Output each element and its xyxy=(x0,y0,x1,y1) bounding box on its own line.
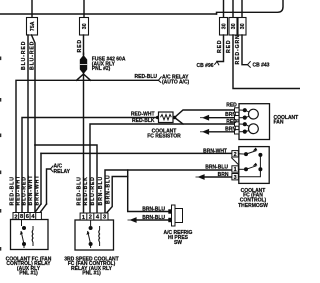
svg-text:PNL #2): PNL #2) xyxy=(92,66,111,72)
svg-text:FAN: FAN xyxy=(274,120,284,126)
svg-text:RED: RED xyxy=(77,39,83,53)
svg-text:1: 1 xyxy=(82,215,85,221)
svg-text:PNL #1): PNL #1) xyxy=(82,271,101,277)
svg-text:THERMOSW: THERMOSW xyxy=(238,203,268,209)
svg-text:BLU-RED: BLU-RED xyxy=(29,41,35,70)
svg-text:RED-WHT: RED-WHT xyxy=(131,111,155,117)
svg-text:2: 2 xyxy=(14,214,17,220)
svg-text:BRN: BRN xyxy=(225,112,236,118)
svg-text:BRN: BRN xyxy=(218,172,229,178)
svg-text:3: 3 xyxy=(103,215,106,221)
svg-text:RED-BLU: RED-BLU xyxy=(135,74,158,80)
svg-text:(AUTO A/C): (AUTO A/C) xyxy=(162,80,190,86)
svg-text:2: 2 xyxy=(89,215,92,221)
svg-text:30: 30 xyxy=(231,23,237,29)
svg-text:RED: RED xyxy=(226,103,237,109)
svg-text:3: 3 xyxy=(234,175,237,181)
svg-text:RED: RED xyxy=(217,39,223,53)
svg-text:30: 30 xyxy=(240,23,246,29)
svg-text:2: 2 xyxy=(234,152,237,158)
svg-text:BLU-RED: BLU-RED xyxy=(90,176,96,205)
svg-text:1: 1 xyxy=(234,167,237,173)
svg-text:8: 8 xyxy=(20,214,23,220)
svg-text:FC RESISTOR: FC RESISTOR xyxy=(147,133,181,139)
svg-text:BRN-BLU: BRN-BLU xyxy=(98,176,104,206)
svg-text:BLU-RED: BLU-RED xyxy=(21,41,27,70)
svg-text:RED-GRN: RED-GRN xyxy=(235,34,241,64)
svg-text:30: 30 xyxy=(82,23,88,29)
svg-text:RED: RED xyxy=(226,119,237,125)
svg-text:RED-BLK: RED-BLK xyxy=(132,118,155,124)
svg-text:SW: SW xyxy=(174,240,182,246)
svg-text:BRN-BLU: BRN-BLU xyxy=(142,215,165,221)
svg-text:BRN: BRN xyxy=(225,127,236,133)
svg-text:BRN-WHT: BRN-WHT xyxy=(34,175,40,206)
svg-text:RELAY: RELAY xyxy=(54,169,71,175)
svg-text:BRN-BLU: BRN-BLU xyxy=(105,174,111,204)
svg-text:BLU-RED: BLU-RED xyxy=(21,176,27,205)
svg-text:RED: RED xyxy=(226,39,232,53)
svg-text:CB #43: CB #43 xyxy=(253,62,270,68)
svg-text:RED-BLU: RED-BLU xyxy=(77,176,83,205)
svg-text:RED-BLK: RED-BLK xyxy=(83,176,89,205)
svg-text:CB #96: CB #96 xyxy=(197,63,214,69)
svg-text:BRN-WHT: BRN-WHT xyxy=(28,175,34,206)
svg-text:BRN-WHT: BRN-WHT xyxy=(203,148,227,154)
svg-text:BRN-BLU: BRN-BLU xyxy=(142,206,165,212)
svg-text:75A: 75A xyxy=(30,21,36,31)
svg-text:30: 30 xyxy=(221,23,227,29)
svg-text:BRN-BLU: BRN-BLU xyxy=(205,165,228,171)
svg-text:PNL #1): PNL #1) xyxy=(19,271,38,277)
svg-text:6: 6 xyxy=(26,214,29,220)
